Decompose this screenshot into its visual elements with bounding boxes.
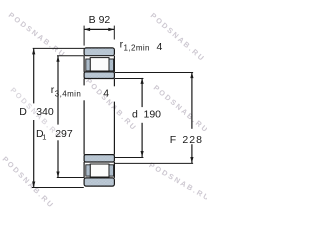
svg-text:B: B (89, 14, 96, 26)
svg-text:3,4min: 3,4min (55, 90, 81, 99)
svg-text:4: 4 (103, 88, 109, 100)
svg-text:d: d (132, 109, 138, 121)
svg-text:D: D (19, 106, 27, 118)
svg-text:190: 190 (144, 109, 162, 121)
svg-text:4: 4 (157, 41, 163, 53)
svg-text:1,2min: 1,2min (124, 43, 150, 52)
svg-text:1: 1 (42, 133, 46, 142)
svg-text:297: 297 (55, 128, 73, 140)
svg-text:92: 92 (99, 14, 111, 26)
svg-text:228: 228 (182, 134, 203, 146)
svg-text:F: F (170, 134, 176, 146)
svg-text:340: 340 (36, 106, 54, 118)
